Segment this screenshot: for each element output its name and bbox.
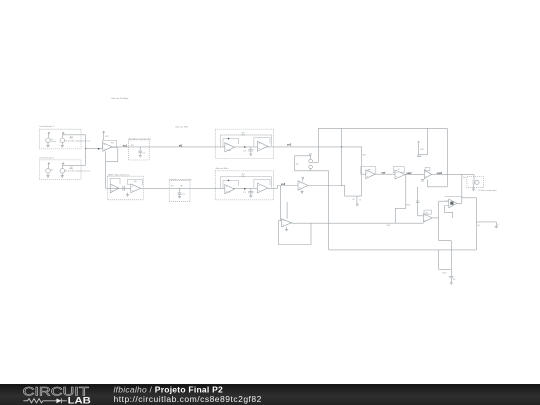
svg-text:V4 1k Ohm unloaded source: V4 1k Ohm unloaded source bbox=[65, 171, 91, 173]
wire bottom box right bbox=[450, 241, 452, 277]
op-amp OA7 bbox=[225, 185, 235, 194]
capacitor C4 to ground bbox=[248, 147, 253, 156]
wire vo3 down to OA9 bbox=[280, 186, 283, 221]
svg-text:out2: out2 bbox=[406, 172, 412, 175]
svg-text:100k: 100k bbox=[241, 134, 245, 136]
ground OA2 bbox=[126, 193, 129, 197]
node junction main-mid bbox=[341, 146, 342, 147]
footer bar bbox=[0, 384, 540, 405]
wire feedback rect OA6 bbox=[254, 138, 270, 146]
wire right drop to bottom rail bbox=[475, 198, 477, 250]
wire OA15 bottom input bbox=[395, 222, 423, 224]
stub circle above OA10 bbox=[302, 177, 304, 182]
op-amp OA13 power bbox=[424, 170, 431, 179]
wire feedback rect OA8 bbox=[254, 180, 270, 188]
polarity tick U1 input bbox=[98, 148, 100, 150]
wire into OA11 bbox=[361, 173, 365, 175]
ground OA9 bbox=[285, 227, 288, 231]
node junction dot box6 mid bbox=[244, 146, 246, 148]
op-amp U1 bbox=[103, 143, 112, 152]
wire OA12 to OA13 bbox=[405, 173, 424, 175]
speaker SPK1 bbox=[473, 180, 479, 184]
svg-text:Bloco de Pré-Ampl.: Bloco de Pré-Ampl. bbox=[112, 97, 130, 100]
dashed box bandpass row2 bbox=[215, 171, 274, 200]
op-amp OA15 bbox=[423, 214, 432, 223]
resistor R11 on riser bbox=[362, 147, 368, 174]
wire U1 feedback down bbox=[106, 147, 118, 188]
battery V5 bbox=[449, 276, 456, 282]
svg-text:out3: out3 bbox=[437, 172, 443, 175]
dependent source circle A bbox=[309, 159, 313, 163]
resistor R1 mini bbox=[70, 136, 74, 138]
svg-text:1 kHz: 1 kHz bbox=[51, 141, 56, 143]
feedback rect OA15 bbox=[424, 210, 432, 214]
node junction bus bbox=[85, 148, 86, 149]
op-amp OA9 bbox=[281, 219, 291, 227]
svg-text:http://circuitlab.com/cs8e89tc: http://circuitlab.com/cs8e89tc2gf82 bbox=[114, 394, 262, 404]
supply stub U1 bbox=[103, 131, 105, 140]
wire into U1 bbox=[86, 148, 103, 150]
wire OA9 output bbox=[292, 222, 396, 224]
capacitor stub OA13 bbox=[421, 180, 424, 181]
svg-text:LAB: LAB bbox=[68, 395, 91, 405]
wire feedback inner rect box7 bbox=[223, 180, 239, 188]
stub node circle under network bbox=[356, 196, 358, 205]
wire feedback riser R13 bbox=[395, 174, 411, 223]
resistor R3 feedback box U1 bbox=[103, 140, 117, 147]
wire cap stub into OA13 bbox=[416, 187, 420, 216]
resistor Rg vertical bbox=[295, 156, 299, 171]
source V4 bbox=[60, 163, 65, 178]
wire OA15 top input bbox=[418, 215, 424, 217]
wire resistor top link bbox=[295, 155, 311, 157]
wire source link right bbox=[312, 161, 318, 163]
svg-text:8 Ohm Loudspeaker: 8 Ohm Loudspeaker bbox=[479, 190, 497, 192]
wire under C riser bbox=[360, 174, 362, 196]
capacitor C1 to ground bbox=[138, 147, 146, 157]
wire big feedback right edge bbox=[446, 128, 448, 186]
wire box2 output bbox=[62, 164, 85, 166]
pull-up source arrow bbox=[418, 141, 420, 155]
wire input bus vertical bbox=[85, 135, 87, 166]
svg-text:g: g bbox=[498, 224, 499, 226]
op-amp OA10 bbox=[298, 181, 308, 190]
capacitor C2 series bbox=[123, 186, 125, 191]
wire OA10 output bbox=[308, 185, 342, 187]
wire row2 main bbox=[106, 187, 278, 189]
wire OA14 minus input bbox=[439, 200, 449, 202]
capacitor C3 to ground bbox=[178, 188, 186, 198]
wire bottom long rail bbox=[329, 249, 477, 251]
op-amp OA2 bbox=[131, 184, 141, 193]
ground speaker bbox=[472, 184, 475, 190]
wire vertical F input drop bbox=[438, 201, 440, 240]
svg-text:vo3: vo3 bbox=[281, 183, 286, 186]
wire bottom box bottom bbox=[439, 268, 452, 270]
op-amp OA1 bbox=[110, 184, 119, 193]
dashed box bandpass row1 bbox=[215, 129, 274, 158]
wire OA15 output bbox=[432, 217, 439, 219]
wire pull-up link bbox=[419, 155, 428, 157]
wire feedback inner rect box6 bbox=[223, 139, 239, 147]
capacitor bars pull-up bbox=[417, 155, 421, 156]
svg-text:VCC: VCC bbox=[105, 136, 110, 138]
feedback rect OA14 bbox=[445, 197, 463, 206]
capacitor C5 to ground bbox=[248, 189, 253, 198]
wire bottom box left bbox=[438, 250, 440, 270]
node junction dot box7 mid bbox=[244, 188, 246, 190]
dashed box speaker bbox=[467, 177, 484, 188]
wire feedback rect OA2 bbox=[128, 179, 143, 185]
wire into speaker bbox=[473, 174, 475, 180]
wire OA11 to OA12 bbox=[375, 173, 395, 175]
wire OA14 output bbox=[457, 202, 462, 204]
wire top rail vertical left bbox=[317, 128, 319, 162]
ground load bbox=[495, 222, 498, 228]
svg-text:Somador n inversor ativo: Somador n inversor ativo bbox=[169, 178, 192, 181]
op-amp OA5 bbox=[225, 143, 235, 152]
dashed box input sources 2 bbox=[40, 160, 82, 180]
wire E-out feedback drop bbox=[461, 174, 463, 203]
svg-text:Fonte Entrada 1: Fonte Entrada 1 bbox=[40, 125, 55, 128]
wire big feedback bottom bbox=[428, 180, 448, 187]
svg-text:vo1: vo1 bbox=[123, 144, 128, 147]
wire OA13 output bbox=[432, 173, 475, 175]
wire bottom box top bbox=[439, 240, 452, 242]
source V1 bbox=[46, 132, 51, 147]
wire resistor bottom link bbox=[295, 170, 329, 172]
node junction dot box7 a bbox=[228, 180, 230, 182]
svg-text:Bloco de Filtro: Bloco de Filtro bbox=[216, 167, 230, 170]
logo resistor zigzag bbox=[23, 399, 56, 403]
svg-text:Fonte Entrada 2: Fonte Entrada 2 bbox=[40, 156, 55, 159]
wire OA9 feedback loop bbox=[278, 221, 311, 245]
wire OA9 feedback riser bbox=[286, 202, 288, 219]
source V3 bbox=[46, 163, 51, 178]
svg-text:Rs: Rs bbox=[463, 177, 465, 179]
svg-text:vf1: vf1 bbox=[179, 144, 183, 147]
svg-text:V2 1k Ohm unloaded source: V2 1k Ohm unloaded source bbox=[65, 140, 91, 142]
svg-text:Rg: Rg bbox=[296, 163, 299, 165]
op-amp OA8 bbox=[257, 183, 267, 193]
ground OA10 bbox=[300, 190, 303, 193]
feedback rect OA12 bbox=[393, 167, 404, 173]
dependent source circle B bbox=[309, 165, 313, 169]
wire box1 output bbox=[62, 134, 85, 136]
wire load branch bbox=[476, 221, 496, 223]
wire source to bottom bbox=[310, 169, 312, 171]
wire main row1 bbox=[112, 146, 362, 148]
node junction dot box6 a bbox=[228, 138, 230, 140]
wire row2 step bbox=[278, 186, 298, 189]
stub circle source top bbox=[309, 154, 311, 160]
wire top rail drop right bbox=[427, 128, 429, 154]
svg-text:Bloco de Filtro: Bloco de Filtro bbox=[176, 125, 190, 128]
wire vertical down left bbox=[328, 171, 330, 250]
wire OA14 top link bbox=[462, 197, 476, 199]
dashed box filter RC row2 bbox=[169, 180, 190, 201]
dashed box filter RC row1 bbox=[128, 140, 149, 160]
op-amp OA6 bbox=[257, 141, 267, 151]
op-amp OA14 bbox=[449, 199, 457, 208]
op-amp OA12 bbox=[395, 170, 405, 179]
wire feedback outer rect box6 bbox=[220, 135, 271, 147]
feedback rect OA13 bbox=[425, 168, 430, 171]
dashed box amplifier row2 bbox=[107, 176, 143, 200]
svg-text:100k: 100k bbox=[241, 176, 245, 178]
resistor R2 mini bbox=[70, 167, 74, 169]
wire mid vertical long bbox=[342, 128, 362, 196]
op-amp OA11 bbox=[366, 170, 375, 179]
svg-text:vo2: vo2 bbox=[287, 143, 292, 146]
dashed box input sources 1 bbox=[40, 129, 82, 149]
feedback rect OA11 bbox=[361, 167, 376, 175]
svg-text:lfbicalho / Projeto Final P2: lfbicalho / Projeto Final P2 bbox=[114, 384, 224, 394]
source V2 bbox=[60, 132, 65, 147]
svg-text:out: out bbox=[381, 172, 385, 175]
wire top rail horizontal bbox=[318, 127, 447, 129]
wire feedback rect OA1 bbox=[110, 178, 120, 185]
logo diode bbox=[56, 398, 66, 403]
ground battery bbox=[450, 283, 453, 285]
wire OA14 plus path bbox=[445, 206, 453, 218]
wire feedback outer rect box7 bbox=[220, 177, 271, 189]
